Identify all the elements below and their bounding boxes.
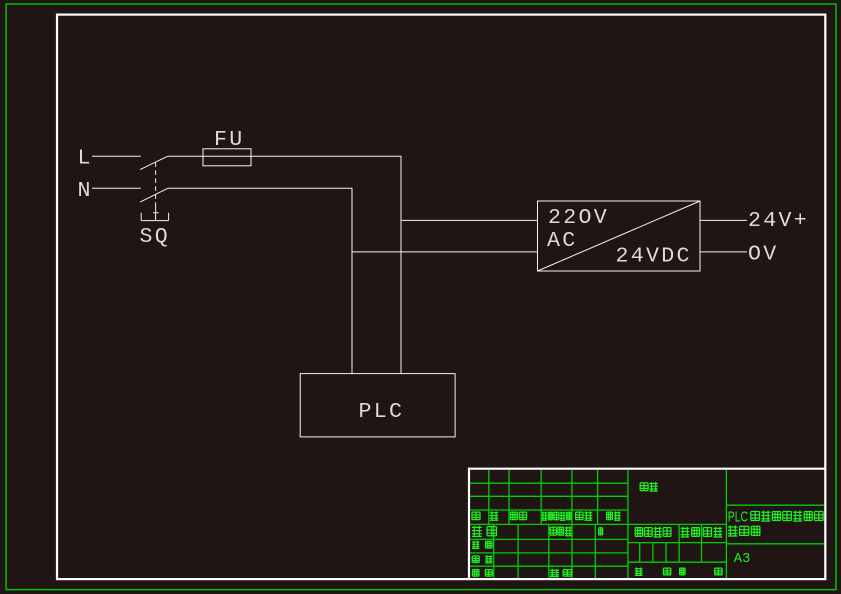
node N terminal wire (92, 187, 141, 189)
svg-text:22OV: 22OV (548, 206, 609, 230)
svg-text:N: N (78, 179, 93, 203)
svg-text:L: L (78, 147, 93, 171)
switch SQ pole 2 blade (140, 188, 168, 202)
switch SQ linkage dashed line (155, 162, 157, 206)
title block white outline (468, 468, 826, 580)
stage-mark area lines (628, 542, 727, 544)
wire branch to power supply AC input 2 (352, 251, 538, 253)
wire L phase to fuse and down to PLC (168, 156, 401, 373)
title block row lines left section (470, 482, 628, 484)
power supply U1 diagonal (538, 201, 701, 271)
switch SQ manual operator symbol (141, 207, 168, 221)
svg-text:FU: FU (214, 128, 245, 152)
switch SQ pole 1 blade (140, 156, 168, 169)
svg-text:OV: OV (748, 243, 779, 267)
wire N to PLC (168, 188, 352, 373)
svg-text:24V+: 24V+ (748, 209, 809, 233)
svg-text:A3: A3 (734, 552, 751, 567)
title block section divider verticals (627, 470, 629, 578)
node L terminal wire (92, 155, 141, 157)
svg-text:24VDC: 24VDC (616, 244, 692, 268)
svg-text:PLC: PLC (728, 507, 748, 524)
right column lines (726, 504, 824, 506)
title block column lines lower left section (493, 524, 495, 578)
svg-text:PLC: PLC (359, 400, 405, 424)
power supply U1 box (538, 201, 701, 271)
fuse FU body (203, 149, 251, 166)
title block column lines upper left section (488, 470, 490, 524)
svg-text:AC: AC (547, 229, 578, 253)
svg-text:SQ: SQ (140, 225, 171, 249)
PLC box (300, 374, 455, 437)
wire 24V+ output (700, 219, 747, 221)
title block chinese text (material, signatures, stage marks, titles) (472, 482, 823, 577)
wire branch to power supply AC input 1 (401, 219, 538, 221)
wire 0V output (700, 251, 747, 253)
